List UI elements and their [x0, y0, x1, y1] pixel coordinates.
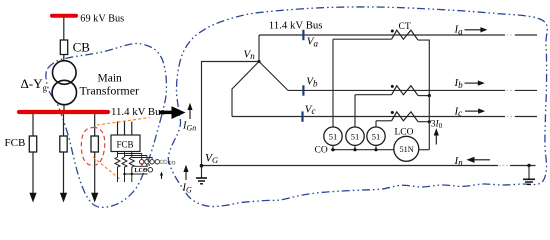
wire Vn diagonal+down to phase c: [232, 62, 259, 117]
mini detail: FCB box: [111, 135, 140, 152]
CT a zigzag: [392, 30, 418, 40]
mini detail: CT zigzags: [115, 157, 120, 167]
relay 51N: [394, 136, 419, 161]
CT b zigzag: [392, 86, 418, 96]
bus tick c: [301, 111, 303, 121]
VG / In ground line: [202, 165, 499, 167]
svg-text:CB: CB: [73, 40, 91, 55]
CT b secondary lead left: [355, 94, 392, 96]
CO line: [331, 149, 394, 151]
feeder 1 load wire + arrow: [32, 152, 34, 195]
red dashed highlight ellipse on feeder 3: [81, 127, 104, 165]
mini detail: relay circles: [140, 160, 144, 164]
blue dash-dot blob (right schematic boundary): [168, 7, 547, 207]
wire CT b lead down to relay 2: [354, 95, 356, 128]
svg-text:Ib: Ib: [454, 77, 464, 90]
mini detail: current arrow: [161, 174, 163, 180]
ground left: [201, 166, 203, 178]
svg-text:LCO: LCO: [135, 168, 148, 174]
svg-text:Ia: Ia: [454, 24, 464, 37]
CT b polarity dot: [391, 85, 394, 88]
CO line right of 51N: [419, 149, 430, 151]
svg-text:CO: CO: [315, 146, 328, 156]
feeder 3 breaker: [91, 136, 98, 152]
feeder 2 wire: [63, 114, 65, 136]
svg-text:Vn: Vn: [244, 48, 256, 61]
CT c secondary lead right: [418, 121, 429, 123]
wire CB to transformer: [63, 55, 65, 62]
feeder 1 breaker FCB: [29, 136, 36, 152]
mini detail: connector steps to relays: [118, 154, 142, 160]
CT c secondary lead left: [376, 120, 392, 122]
svg-text:FCB: FCB: [117, 140, 134, 150]
svg-text:51: 51: [372, 131, 381, 141]
svg-text:11.4 kV Bus: 11.4 kV Bus: [111, 106, 165, 118]
CT a secondary lead right: [418, 40, 429, 96]
mini detail: bottom connector + dots: [135, 165, 149, 167]
feeder 1 wire: [32, 114, 34, 136]
CT c polarity dot: [391, 111, 394, 114]
CT a polarity dot: [391, 30, 394, 33]
junction dot b return: [428, 94, 431, 97]
blue dash-dot callout bubble (left detail region): [46, 43, 167, 207]
3I0 return wire: [428, 96, 430, 150]
wire transformer to 11.4 kV bus: [63, 105, 65, 111]
phase b line: [288, 89, 505, 91]
svg-text:Va: Va: [307, 36, 319, 49]
wire CT a lead down to relay 1: [332, 39, 334, 127]
wire bus to CB: [63, 18, 65, 41]
feeder 3 wire + arrow: [94, 152, 96, 195]
CT c zigzag: [392, 112, 418, 122]
svg-text:51: 51: [351, 131, 360, 141]
svg-text:3I0: 3I0: [431, 120, 443, 131]
mini detail: red trip marks: [141, 164, 143, 166]
svg-text:11.4 kV Bus: 11.4 kV Bus: [269, 19, 323, 31]
mini detail: wires below CTs: [117, 167, 119, 182]
circuit breaker CB: [60, 40, 67, 55]
feeder 2 wire + arrow: [63, 152, 65, 195]
wire Vn up to phase a: [258, 35, 260, 62]
relay 51 phase a: [324, 127, 342, 145]
CT b secondary lead right: [418, 95, 429, 97]
svg-text:Vb: Vb: [306, 76, 318, 89]
mini detail: ground relay 51N: [148, 168, 153, 173]
phase c line: [232, 116, 505, 118]
svg-text:CT: CT: [399, 22, 411, 32]
svg-text:51: 51: [329, 131, 338, 141]
ground right: [528, 166, 530, 179]
main transformer T1: [53, 61, 77, 85]
3I0 arrow: [435, 134, 437, 145]
junction dot c return: [428, 120, 431, 123]
orange callout line top: [97, 118, 150, 126]
relay stubs to CO line: [332, 145, 334, 150]
feeder 2 breaker: [60, 136, 67, 152]
mini detail: three phase wires: [117, 122, 119, 136]
phase a line: [259, 34, 505, 36]
69 kV bus (red bar): [52, 14, 76, 18]
11.4 kV bus (red bar): [19, 110, 108, 114]
wire Vn diagonal to phase b: [259, 62, 288, 91]
orange callout line bottom: [93, 157, 121, 180]
bus tick b: [302, 85, 304, 95]
svg-text:FCB: FCB: [5, 137, 26, 149]
svg-text:69 kV Bus: 69 kV Bus: [80, 13, 124, 24]
feeder 3 wire: [94, 114, 96, 136]
svg-text:Vc: Vc: [305, 103, 316, 116]
relay 51 phase b: [346, 127, 364, 145]
CT a secondary lead left: [333, 38, 392, 40]
relay 51 phase c: [367, 127, 385, 145]
svg-text:VG: VG: [205, 152, 218, 165]
bus tick a: [302, 30, 304, 40]
svg-text:IGn: IGn: [182, 121, 196, 133]
svg-text:51N: 51N: [400, 145, 414, 154]
svg-text:Transformer: Transformer: [80, 84, 140, 98]
mini detail: wires below box: [117, 152, 119, 158]
svg-text:Ic: Ic: [454, 105, 463, 118]
svg-text:Δ-Yg: Δ-Yg: [21, 76, 48, 93]
svg-text:CO: CO: [168, 160, 176, 166]
wire Vn left + down to VG: [202, 62, 260, 166]
wire CT c lead down to relay 3: [375, 121, 377, 127]
svg-text:IG: IG: [182, 183, 193, 195]
big zoom arrow: [159, 106, 186, 119]
